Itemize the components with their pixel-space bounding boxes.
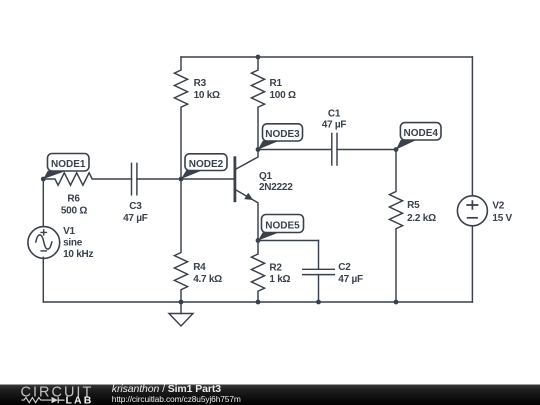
svg-text:V2: V2 [492, 201, 504, 212]
svg-text:15 V: 15 V [492, 213, 512, 224]
svg-text:NODE4: NODE4 [403, 128, 438, 139]
svg-text:47 µF: 47 µF [338, 274, 363, 285]
svg-text:Q1: Q1 [259, 171, 273, 182]
svg-text:C2: C2 [338, 262, 351, 273]
svg-text:NODE5: NODE5 [265, 221, 300, 232]
junction dot NODE3 [256, 147, 261, 152]
svg-text:100 Ω: 100 Ω [270, 90, 296, 101]
svg-text:R2: R2 [269, 262, 282, 273]
svg-text:R1: R1 [270, 78, 283, 89]
source V1 minus sign [40, 250, 47, 252]
wire C2 bottom stub [318, 275, 320, 302]
ground stub [180, 302, 182, 314]
source V2 circle [457, 196, 487, 226]
source V1 plus sign [40, 229, 47, 235]
svg-text:47 µF: 47 µF [123, 213, 148, 224]
svg-text:1 kΩ: 1 kΩ [269, 274, 290, 285]
svg-text:47 µF: 47 µF [322, 120, 347, 131]
svg-text:V1: V1 [63, 226, 75, 237]
svg-text:2N2222: 2N2222 [259, 182, 293, 193]
source V2 plus sign [466, 200, 478, 210]
capacitor C2 [303, 269, 335, 274]
junction dot ground [179, 300, 184, 305]
ground symbol [169, 314, 193, 327]
svg-text:NODE3: NODE3 [265, 129, 300, 140]
svg-text:10 kΩ: 10 kΩ [194, 90, 220, 101]
source V1 sine [36, 235, 52, 249]
svg-text:500 Ω: 500 Ω [61, 205, 87, 216]
svg-text:NODE1: NODE1 [51, 159, 86, 170]
node NODE4 flag [396, 123, 441, 150]
svg-text:2.2 kΩ: 2.2 kΩ [407, 213, 436, 224]
resistor R3 [174, 57, 187, 179]
node NODE5 flag [258, 215, 304, 241]
logo resistor zigzag [22, 398, 52, 403]
svg-text:4.7 kΩ: 4.7 kΩ [193, 274, 222, 285]
wire left rail lower [42, 257, 44, 302]
svg-text:R4: R4 [193, 262, 206, 273]
transistor Q1 collector lead [236, 150, 258, 170]
junction dot NODE5 [256, 238, 261, 243]
resistor R6 [43, 173, 131, 185]
resistor R5 [389, 150, 402, 303]
wire top rail [181, 56, 472, 58]
node NODE2 flag [181, 154, 227, 179]
wire collector row right [337, 149, 396, 151]
junction dot R5 bottom [394, 300, 399, 305]
node NODE3 flag [258, 124, 303, 150]
logo diode [52, 397, 59, 403]
node NODE1 flag [43, 154, 89, 180]
transistor Q1 base bar [233, 156, 236, 202]
junction dot NODE1 [41, 177, 46, 182]
junction dot C2 bottom [316, 300, 321, 305]
transistor Q1 emitter arrow [244, 193, 253, 200]
svg-text:10 kHz: 10 kHz [63, 249, 93, 260]
capacitor C1 [332, 134, 337, 166]
footer bar [0, 385, 540, 405]
wire C3 to base [137, 178, 234, 180]
resistor R4 [174, 179, 187, 302]
junction dot top R1 [256, 55, 261, 60]
wire left rail upper [42, 179, 44, 227]
junction dot NODE2 [179, 177, 184, 182]
wire collector row left [258, 149, 332, 151]
svg-text:http://circuitlab.com/cz8u5yj6: http://circuitlab.com/cz8u5yj6h757m [112, 394, 241, 404]
source V2 minus sign [467, 217, 478, 219]
svg-text:R5: R5 [407, 200, 420, 211]
resistor R1 [251, 57, 264, 150]
wire NODE5 row [258, 240, 319, 242]
wire right rail lower [471, 226, 473, 302]
svg-text:C3: C3 [129, 201, 142, 212]
resistor R2 [251, 241, 264, 303]
svg-text:sine: sine [63, 238, 83, 249]
svg-text:C1: C1 [328, 108, 341, 119]
svg-text:LAB: LAB [66, 394, 94, 405]
capacitor C3 [132, 163, 137, 195]
junction dot NODE4 [394, 147, 399, 152]
transistor Q1 emitter lead [236, 190, 258, 241]
source V1 circle [28, 227, 60, 259]
svg-text:R3: R3 [194, 78, 207, 89]
wire right rail upper [471, 57, 473, 196]
junction dot R2 bottom [256, 300, 261, 305]
wire C2 top stub [318, 241, 320, 270]
svg-text:NODE2: NODE2 [189, 159, 224, 170]
wire bottom rail [43, 301, 472, 303]
svg-text:R6: R6 [67, 194, 80, 205]
